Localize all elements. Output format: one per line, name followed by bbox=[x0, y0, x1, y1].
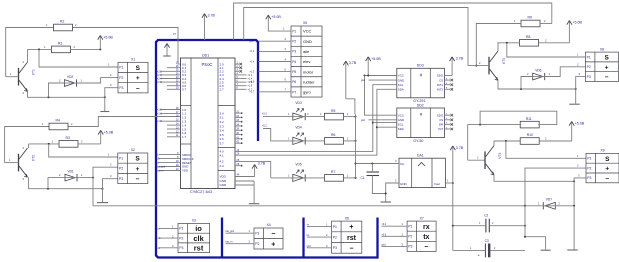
power +5.0V (sensors) bbox=[366, 57, 382, 76]
DD3 DD2 no-connect stubs bbox=[445, 79, 451, 81]
resistor R5 bbox=[325, 109, 344, 120]
svg-text:P2: P2 bbox=[587, 166, 591, 170]
svg-text:io: io bbox=[195, 224, 202, 233]
led VD3 bbox=[292, 101, 305, 120]
svg-text:P2: P2 bbox=[119, 76, 123, 80]
svg-text:×1.6: ×1.6 bbox=[248, 85, 253, 88]
wire VD1 left bbox=[48, 178, 65, 189]
svg-text:VD3: VD3 bbox=[295, 101, 301, 105]
wire top rail A (DD1 to R9) bbox=[234, 3, 552, 40]
power 3.7V (LED rail) bbox=[343, 61, 357, 99]
wire R10 right to +5.0V bbox=[539, 140, 572, 142]
svg-text:clk: clk bbox=[193, 234, 204, 243]
svg-text:SDA: SDA bbox=[398, 127, 404, 131]
wires X6 pins bbox=[307, 225, 332, 227]
svg-text:P2: P2 bbox=[255, 242, 259, 246]
wire VT2 collector bbox=[28, 144, 30, 148]
svg-text:×1.3: ×1.3 bbox=[250, 50, 255, 53]
svg-text:S: S bbox=[605, 156, 610, 163]
svg-text:SDA: SDA bbox=[398, 88, 404, 92]
svg-text:+: + bbox=[136, 75, 140, 82]
svg-text:3.7: 3.7 bbox=[220, 142, 225, 146]
power +5.0V (X5) bbox=[266, 15, 282, 22]
wire sensor VCC bus bbox=[365, 75, 397, 77]
svg-text:+: + bbox=[605, 64, 609, 71]
svg-text:R1: R1 bbox=[58, 42, 62, 46]
wire X1 P2 bbox=[101, 76, 118, 78]
wire R6 right bbox=[344, 140, 356, 142]
svg-text:+: + bbox=[136, 166, 140, 173]
ground (DD1) bbox=[249, 203, 260, 205]
power +5.0V (X2 block) bbox=[98, 130, 114, 144]
IC DA1 voltage regulator bbox=[399, 158, 445, 187]
wire R8 left to VT3 collector bbox=[497, 42, 519, 44]
svg-text:GND: GND bbox=[398, 78, 404, 82]
svg-text:bat_gnd: bat_gnd bbox=[157, 166, 166, 169]
svg-text:rst: rst bbox=[157, 162, 160, 165]
svg-text:motor: motor bbox=[303, 69, 314, 74]
svg-text:rudder: rudder bbox=[303, 79, 315, 84]
svg-text:CS: CS bbox=[439, 118, 443, 122]
svg-text:P1: P1 bbox=[119, 156, 123, 160]
svg-text:×1.3: ×1.3 bbox=[157, 112, 162, 115]
svg-text:SCL: SCL bbox=[398, 83, 404, 87]
svg-text:gnd: gnd bbox=[382, 243, 387, 246]
ground (X8 block) bbox=[569, 103, 580, 105]
svg-text:VT4: VT4 bbox=[498, 152, 502, 158]
svg-text:X8: X8 bbox=[600, 47, 604, 51]
svg-text:3.7В: 3.7В bbox=[208, 14, 216, 18]
svg-text:gnd: gnd bbox=[361, 79, 366, 82]
wire R11 over-loop bbox=[468, 125, 522, 161]
svg-text:P1: P1 bbox=[408, 224, 412, 228]
svg-text:3.7В: 3.7В bbox=[258, 162, 266, 166]
svg-text:P2: P2 bbox=[408, 235, 412, 239]
wire X8 P1 net bbox=[507, 43, 586, 57]
svg-text:X9: X9 bbox=[601, 149, 605, 153]
wire VD7 left junction bbox=[524, 205, 526, 207]
svg-text:R2: R2 bbox=[60, 20, 64, 24]
diode VD2 bbox=[64, 75, 77, 87]
svg-text:VD4: VD4 bbox=[295, 126, 301, 130]
power 3.7V (DD3 SDO) bbox=[450, 57, 464, 76]
svg-text:P1: P1 bbox=[333, 225, 337, 229]
svg-text:+5.0В: +5.0В bbox=[572, 21, 582, 25]
svg-text:×1.4: ×1.4 bbox=[250, 60, 255, 63]
wire R10 left to VT4 collector bbox=[494, 140, 520, 142]
wire VT4 collector bbox=[493, 141, 495, 146]
resistor R2 bbox=[54, 20, 73, 31]
svg-text:gnd: gnd bbox=[361, 119, 366, 122]
wire 3.7V rail down to C2 bbox=[452, 183, 454, 226]
svg-text:rst: rst bbox=[194, 244, 204, 253]
svg-text:1.7: 1.7 bbox=[182, 135, 187, 139]
wires DD1 2.3-2.7 net stubs bbox=[235, 74, 247, 76]
wire VD4 to R6 bbox=[305, 140, 324, 142]
svg-text:−: − bbox=[424, 244, 428, 251]
svg-text:GND: GND bbox=[220, 183, 228, 187]
ground (X2 block) bbox=[97, 202, 108, 204]
svg-text:CY8C27-643: CY8C27-643 bbox=[190, 190, 212, 194]
resistor R10 bbox=[520, 133, 539, 144]
diode VD6 bbox=[532, 68, 545, 80]
power 3.7V (frame top) bbox=[202, 14, 216, 40]
wire R4 net (DD1 1.2 to R4 to VT2 base) bbox=[5, 127, 49, 163]
wire VD2 left bbox=[49, 83, 65, 97]
svg-text:×5.2: ×5.2 bbox=[262, 124, 267, 127]
svg-text:VCC: VCC bbox=[303, 29, 312, 34]
wire VT3 collector bbox=[497, 43, 499, 51]
svg-text:gnd: gnd bbox=[307, 245, 312, 248]
svg-text:3.7В: 3.7В bbox=[456, 57, 464, 61]
svg-text:3.7В: 3.7В bbox=[349, 61, 357, 65]
svg-text:R10: R10 bbox=[527, 133, 533, 137]
ground (VD7) bbox=[567, 249, 578, 251]
svg-text:P3: P3 bbox=[408, 245, 412, 249]
svg-text:+: + bbox=[605, 166, 609, 173]
svg-text:R8: R8 bbox=[526, 35, 530, 39]
wire VD3 to R5 bbox=[305, 116, 324, 118]
wire R1 left to VT1 collector bbox=[28, 48, 52, 50]
svg-text:×2.3: ×2.3 bbox=[157, 74, 162, 77]
wire DD1 4.1 sensor bus SDA bbox=[235, 127, 377, 155]
wire DA1 Vout to 3.7V bbox=[445, 182, 452, 184]
group frame (blue polyline around DD1 and bottom connectors) bbox=[156, 40, 378, 258]
svg-text:×1.5: ×1.5 bbox=[157, 120, 162, 123]
svg-text:GND: GND bbox=[400, 182, 408, 186]
svg-text:GY-50: GY-50 bbox=[413, 139, 423, 143]
svg-text:X2: X2 bbox=[131, 148, 135, 152]
svg-text:×1.6: ×1.6 bbox=[250, 81, 255, 84]
ground (DA1) bbox=[380, 201, 391, 203]
svg-text:rst: rst bbox=[158, 247, 161, 250]
svg-text:P1: P1 bbox=[292, 29, 296, 33]
wire VT4 base bbox=[468, 159, 485, 161]
svg-text:P3: P3 bbox=[292, 50, 296, 54]
svg-text:P1: P1 bbox=[179, 227, 183, 231]
connector X7 (serial) bbox=[407, 216, 436, 251]
IC DD3 accelerometer GY-291 bbox=[397, 68, 445, 98]
wire X1 P1 net bbox=[39, 49, 118, 67]
wire R9 left to VT3 base bbox=[476, 24, 521, 66]
wire X9 P1 net bbox=[506, 141, 586, 158]
wire C right rail to ground bbox=[525, 206, 546, 250]
svg-text:+: + bbox=[349, 224, 353, 231]
wire R3 left to VT2 collector bbox=[29, 143, 59, 145]
svg-text:4.3: 4.3 bbox=[220, 164, 225, 168]
wire X2 P2 net to bottom rail bbox=[93, 167, 118, 206]
wire X9 P2 net bbox=[525, 168, 586, 206]
svg-text:×1.2: ×1.2 bbox=[157, 109, 162, 112]
svg-text:R7: R7 bbox=[331, 170, 335, 174]
led VD5 bbox=[292, 163, 305, 182]
power arrow inside frame bbox=[164, 44, 169, 56]
svg-text:+5.0В: +5.0В bbox=[104, 130, 114, 134]
svg-text:+5.0В: +5.0В bbox=[103, 36, 113, 40]
svg-text:elev.: elev. bbox=[303, 59, 311, 64]
diode VD1 bbox=[65, 169, 78, 181]
power +5.0V (X1 block) bbox=[98, 36, 114, 50]
transistor VT2 bbox=[19, 148, 36, 177]
wire sensor SCL bus bbox=[373, 85, 397, 123]
resistor R4 bbox=[49, 119, 68, 130]
wire R7 right bbox=[344, 177, 356, 179]
wire R3 right to +5.0V bbox=[78, 143, 101, 145]
resistor R11 bbox=[520, 117, 539, 128]
svg-text:R9: R9 bbox=[528, 16, 532, 20]
svg-text:0.7: 0.7 bbox=[182, 88, 187, 92]
wire VT1 collector bbox=[27, 49, 29, 62]
svg-text:GND: GND bbox=[303, 39, 312, 44]
svg-text:+: + bbox=[271, 241, 275, 248]
wire bottom supply rail bbox=[93, 205, 525, 207]
svg-text:P7: P7 bbox=[292, 90, 296, 94]
connector X8 bbox=[585, 47, 618, 81]
resistor R7 bbox=[325, 170, 344, 181]
svg-text:INT1: INT1 bbox=[437, 83, 444, 87]
wire VD5 left bbox=[271, 177, 293, 179]
power 3.7V (DD1 VDD) bbox=[252, 162, 266, 177]
svg-text:P1: P1 bbox=[255, 232, 259, 236]
wire VD1 right to X2 P2 net bbox=[78, 177, 94, 179]
wires X7 pins bbox=[382, 225, 408, 227]
svg-text:DD1: DD1 bbox=[202, 54, 209, 58]
svg-text:VT1: VT1 bbox=[32, 69, 36, 75]
wire VT3 emitter bbox=[498, 80, 576, 89]
resistor R3 bbox=[59, 136, 78, 147]
svg-text:VCC: VCC bbox=[398, 113, 404, 117]
wire LED common rail bbox=[355, 114, 357, 178]
svg-text:−: − bbox=[136, 85, 140, 92]
wire R1 right to +5.0V bbox=[71, 48, 101, 50]
wire VD6 right to X8 P2 bbox=[545, 67, 585, 77]
svg-text:aile: aile bbox=[303, 49, 310, 54]
wire C2 C3 left rail bbox=[452, 226, 454, 251]
wire VD3 left bbox=[263, 116, 293, 118]
wire R2 net (DD1 0.0 to R2 to VT1 base) bbox=[6, 28, 54, 77]
wire X9 P3 bbox=[574, 178, 586, 181]
wire X2 P1 net bbox=[49, 144, 118, 157]
wire top rail B (DD1 to VT3 base) bbox=[244, 8, 468, 66]
svg-text:VT2: VT2 bbox=[32, 155, 36, 161]
connector X9 bbox=[586, 149, 619, 183]
svg-text:X5: X5 bbox=[303, 21, 307, 25]
DD1 port group dividers bbox=[181, 105, 192, 107]
wire VD2 right to X1 P2 bbox=[77, 77, 101, 83]
wire DA1 Vin bbox=[356, 163, 400, 165]
wires X5 pin net stubs bbox=[259, 40, 292, 42]
svg-text:GND: GND bbox=[398, 118, 404, 122]
svg-text:×5.3: ×5.3 bbox=[262, 112, 267, 115]
svg-text:S: S bbox=[136, 65, 141, 72]
svg-text:X4: X4 bbox=[267, 223, 271, 227]
svg-text:gnd: gnd bbox=[250, 40, 255, 43]
svg-text:P3: P3 bbox=[179, 246, 183, 250]
svg-text:P2: P2 bbox=[179, 236, 183, 240]
DD1 pins 2.0-2.2 no-connect bbox=[235, 63, 240, 65]
connector X2 bbox=[118, 148, 148, 183]
wires X4 pins bbox=[226, 232, 255, 234]
svg-text:P6: P6 bbox=[292, 80, 296, 84]
svg-text:R3: R3 bbox=[66, 136, 70, 140]
svg-text:VCC: VCC bbox=[398, 74, 404, 78]
transistor VT3 bbox=[489, 51, 506, 80]
svg-text:DA1: DA1 bbox=[417, 154, 424, 158]
svg-text:×2.2: ×2.2 bbox=[157, 70, 162, 73]
svg-text:VT3: VT3 bbox=[502, 58, 506, 64]
svg-text:×1.5: ×1.5 bbox=[250, 70, 255, 73]
wire VT3 base bbox=[468, 65, 489, 67]
diode VD7 bbox=[543, 198, 556, 210]
wire X2 P3 to ground bbox=[103, 179, 118, 202]
svg-text:−: − bbox=[605, 175, 609, 182]
svg-text:DD2: DD2 bbox=[417, 103, 424, 107]
svg-text:SDO: SDO bbox=[437, 74, 444, 78]
connector X5 bbox=[291, 26, 322, 97]
svg-text:bat_+v: bat_+v bbox=[157, 170, 165, 173]
svg-text:P2: P2 bbox=[119, 167, 123, 171]
connector X6 (reset) bbox=[332, 216, 362, 253]
svg-text:×1.3: ×1.3 bbox=[248, 74, 253, 77]
svg-text:×0.5: ×0.5 bbox=[382, 233, 387, 236]
svg-text:SDO: SDO bbox=[437, 113, 444, 117]
svg-text:P3: P3 bbox=[119, 86, 123, 90]
svg-text:gyro: gyro bbox=[303, 90, 312, 95]
wire emitter net to VD7 right bbox=[573, 181, 575, 206]
connector X1 bbox=[118, 58, 148, 93]
transistor VT4 bbox=[485, 146, 502, 175]
svg-text:P3: P3 bbox=[587, 75, 591, 79]
svg-text:C2: C2 bbox=[484, 213, 488, 217]
svg-text:R6: R6 bbox=[331, 133, 335, 137]
power 3.7V (DA1 output) bbox=[450, 146, 464, 183]
wire VD6 left bbox=[521, 77, 532, 90]
svg-text:+5.0В: +5.0В bbox=[271, 15, 281, 19]
svg-text:rx: rx bbox=[423, 224, 430, 231]
power +5.0V (X9 block) bbox=[569, 122, 585, 142]
ground (C2 C3) bbox=[541, 249, 551, 251]
wire VD7 right to ground bbox=[573, 206, 575, 250]
svg-text:P1: P1 bbox=[587, 55, 591, 59]
svg-text:VD5: VD5 bbox=[295, 163, 301, 167]
svg-text:VD1: VD1 bbox=[68, 169, 74, 173]
svg-text:X6: X6 bbox=[345, 216, 349, 220]
svg-text:S: S bbox=[604, 54, 609, 61]
svg-text:P4: P4 bbox=[292, 60, 296, 64]
svg-text:P1: P1 bbox=[587, 157, 591, 161]
connector X4 (battery) bbox=[254, 223, 283, 249]
svg-text:−: − bbox=[605, 74, 609, 81]
wire VT2 base bbox=[5, 162, 19, 164]
wire X8 P3 to ground bbox=[576, 77, 586, 104]
wires X3 pins bbox=[159, 227, 178, 229]
svg-text:INT: INT bbox=[438, 127, 443, 131]
svg-text:VD6: VD6 bbox=[535, 68, 541, 72]
wire VT1 base bbox=[6, 76, 19, 78]
wire DD1 4.2 to VD5 bbox=[235, 161, 271, 178]
resistor R1 bbox=[52, 42, 71, 53]
svg-text:DR: DR bbox=[439, 123, 443, 127]
svg-text:P5: P5 bbox=[292, 70, 296, 74]
resistor R6 bbox=[325, 133, 344, 144]
svg-text:C1: C1 bbox=[361, 176, 365, 180]
svg-text:P3: P3 bbox=[119, 177, 123, 181]
resistor R9 bbox=[521, 16, 540, 27]
svg-text:+5.0В: +5.0В bbox=[371, 57, 381, 61]
wire X1 P3 to ground bbox=[105, 88, 118, 111]
connector X3 (programming) bbox=[178, 219, 210, 253]
wire DD1 VDD to 3.7V bbox=[235, 176, 255, 178]
wire sensor GND stub bbox=[369, 79, 397, 81]
svg-text:P3: P3 bbox=[587, 176, 591, 180]
svg-text:3.7В: 3.7В bbox=[456, 146, 464, 150]
wire VT4 emitter bbox=[494, 175, 574, 182]
IC DD1 box (PSoC CY8C27-643) bbox=[181, 58, 236, 189]
svg-text:X3: X3 bbox=[192, 219, 196, 223]
wire R8 right to +5.0V bbox=[539, 42, 570, 44]
svg-text:CS: CS bbox=[439, 78, 443, 82]
resistor R8 bbox=[520, 35, 539, 46]
svg-text:2.7: 2.7 bbox=[220, 88, 225, 92]
wire VD7 right junction bbox=[556, 205, 574, 207]
svg-text:INT2: INT2 bbox=[437, 88, 444, 92]
wire DD1 GND pins to ground bbox=[235, 180, 254, 182]
svg-text:PSoC: PSoC bbox=[202, 62, 213, 67]
svg-text:P2: P2 bbox=[587, 65, 591, 69]
wire R5 right bbox=[344, 116, 356, 118]
svg-text:bat_+v: bat_+v bbox=[226, 241, 234, 244]
svg-text:X1: X1 bbox=[131, 58, 135, 62]
wire R9 right bbox=[540, 23, 552, 25]
svg-text:×0.4: ×0.4 bbox=[382, 223, 387, 226]
svg-text:P2: P2 bbox=[292, 40, 296, 44]
svg-text:−: − bbox=[136, 176, 140, 183]
svg-text:DD3: DD3 bbox=[417, 64, 424, 68]
svg-text:VDD: VDD bbox=[182, 169, 188, 173]
wire sensor SDA bus bbox=[377, 89, 397, 127]
wire DA1 GND to ground bbox=[386, 183, 399, 202]
svg-text:bat_gnd: bat_gnd bbox=[226, 230, 235, 233]
svg-text:×1.7: ×1.7 bbox=[250, 91, 255, 94]
svg-text:VD7: VD7 bbox=[546, 198, 552, 202]
svg-text:S: S bbox=[135, 156, 140, 163]
svg-text:R5: R5 bbox=[331, 109, 335, 113]
wire VD5 to R7 bbox=[305, 177, 324, 179]
svg-text:P2: P2 bbox=[333, 235, 337, 239]
ground (X1 block) bbox=[100, 111, 109, 113]
svg-text:X7: X7 bbox=[420, 216, 424, 220]
svg-text:Vin: Vin bbox=[400, 162, 405, 166]
svg-text:−: − bbox=[349, 246, 353, 253]
svg-text:×2.5: ×2.5 bbox=[157, 81, 162, 84]
svg-text:×2.4: ×2.4 bbox=[157, 78, 162, 81]
DD1 4.3 no connect bbox=[235, 165, 241, 167]
svg-text:P1: P1 bbox=[119, 66, 123, 70]
wire VD4 left bbox=[263, 129, 293, 141]
svg-text:tx: tx bbox=[423, 234, 429, 241]
transistor VT1 bbox=[19, 62, 36, 91]
svg-text:Vout: Vout bbox=[434, 182, 440, 186]
wire VT2 emitter bbox=[29, 177, 103, 189]
led VD4 bbox=[292, 126, 305, 145]
svg-text:R11: R11 bbox=[526, 117, 532, 121]
svg-text:VD2: VD2 bbox=[67, 75, 73, 79]
svg-text:SCL: SCL bbox=[398, 123, 404, 127]
svg-text:R4: R4 bbox=[56, 119, 60, 123]
svg-text:−: − bbox=[271, 231, 275, 238]
svg-text:rst: rst bbox=[347, 235, 357, 242]
wire VT1 emitter bbox=[28, 91, 105, 97]
